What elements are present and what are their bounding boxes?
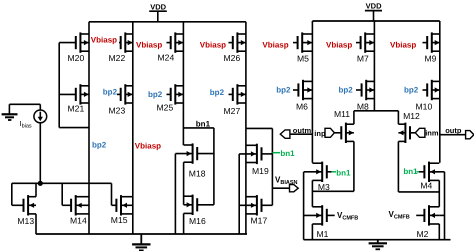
wire VDD rail (right block) <box>312 20 439 22</box>
wire Ibias down to bias node <box>39 123 41 184</box>
svg-text:M25: M25 <box>157 103 174 113</box>
svg-text:VDD: VDD <box>150 2 166 11</box>
ground (left block bottom) <box>132 234 150 250</box>
wire bias node horizontal <box>12 182 112 184</box>
transistor M11 (input pair left) <box>334 109 354 143</box>
wire M20/M21 gate line with loop to M21 drain <box>59 43 89 128</box>
svg-text:bp2: bp2 <box>210 88 225 97</box>
wire M13 source down to ground rail <box>35 214 37 234</box>
svg-text:M13: M13 <box>17 216 34 226</box>
svg-text:bn1: bn1 <box>403 167 418 176</box>
ground (right block bottom) <box>369 240 387 250</box>
svg-text:M26: M26 <box>224 53 241 63</box>
transistor M24 <box>158 32 184 62</box>
wire M12 drain down and over to M4 source node <box>398 141 439 192</box>
svg-text:Vbiasp: Vbiasp <box>262 40 288 49</box>
wire M11 drain down and over to M3 source node <box>312 141 354 191</box>
svg-text:bp2: bp2 <box>339 86 354 95</box>
wire M3/M1 column x=312.4 (M3 body to M1, down to ground rail) <box>311 180 313 239</box>
svg-text:Vbiasp: Vbiasp <box>326 40 352 49</box>
wire M11 source up to tail <box>353 111 355 124</box>
svg-text:M24: M24 <box>158 53 175 63</box>
transistor M20 <box>59 32 89 63</box>
power symbol VDD (left) <box>149 2 167 22</box>
svg-text:inp: inp <box>314 129 326 138</box>
transistor M5 <box>293 32 312 63</box>
wire M20/M21 source-drain column (x=89) from VDD rail to ground rail <box>88 22 90 234</box>
transistor M13 (diode connected) <box>12 195 36 226</box>
svg-text:M14: M14 <box>70 216 87 226</box>
wire bn1 loop: top horizontal and gate-side vertical for M18/M16 gates <box>183 128 214 205</box>
transistor M22 <box>109 32 133 63</box>
transistor M15 <box>111 195 133 225</box>
svg-text:M15: M15 <box>111 215 128 225</box>
wire M17 gate loop up to VBIASN <box>271 188 273 205</box>
svg-text:bp2: bp2 <box>103 87 118 96</box>
wire tail horizontal (M8 drain to input pair sources) <box>354 110 399 112</box>
wire bias node to M14 gate (L) <box>61 183 63 205</box>
wire M19/M17 bulk line down to ground rail (x=239.2) <box>238 154 240 234</box>
svg-text:M18: M18 <box>189 168 206 178</box>
wire M24/M25 column (x=183.4) from VDD rail down to bn1 loop <box>182 22 184 145</box>
transistor M21 <box>59 84 89 113</box>
transistor M1 (mirrored) <box>304 205 335 239</box>
svg-text:M22: M22 <box>109 53 126 63</box>
svg-text:M3: M3 <box>318 182 330 192</box>
wire M2 bulk tie (arrow lead extension to bulk line) <box>439 214 444 216</box>
svg-text:M19: M19 <box>252 166 269 176</box>
transistor M8 <box>356 80 374 112</box>
power symbol VDD (right) <box>365 2 382 21</box>
transistor M19 (mirrored, diode to VBIASN) <box>239 144 272 176</box>
svg-text:M20: M20 <box>68 53 85 63</box>
net label bn1 (green, M4 gate) <box>403 167 419 176</box>
wire M7/M8 column x=374.4 from rail to tail <box>373 21 375 111</box>
transistor M3 (cascode, mirrored) <box>304 162 332 192</box>
svg-text:M11: M11 <box>334 109 350 119</box>
transistor M17 (mirrored) <box>239 195 272 225</box>
svg-text:bn1: bn1 <box>280 149 295 158</box>
svg-text:M12: M12 <box>403 111 420 121</box>
wire M4/M2 column x=439.3 <box>438 180 440 239</box>
wire M22/M23 column (x=132.8) VDD rail to ground rail, carries Vbiasp down to M15 <box>132 22 134 234</box>
wire ground rail (left block) <box>36 233 247 235</box>
svg-text:M5: M5 <box>297 53 309 63</box>
net label bn1 (green, at M19 gate) <box>272 149 295 158</box>
transistor M16 (mirrored) <box>184 195 214 226</box>
port outm: open arrow, label and wire <box>280 126 312 138</box>
svg-text:outm: outm <box>293 126 312 135</box>
port inp: label and open arrow into M11 gate <box>314 128 334 138</box>
svg-text:Vbiasp: Vbiasp <box>136 40 162 49</box>
transistor M14 <box>62 195 89 226</box>
svg-text:Vbiasp: Vbiasp <box>135 142 161 151</box>
svg-text:bp2: bp2 <box>276 86 291 95</box>
wire M9/M10 column x=439.8 from rail down to M4 drain <box>439 21 441 163</box>
transistor M12 (input pair right, mirrored) <box>398 111 420 143</box>
svg-text:bp2: bp2 <box>404 86 419 95</box>
wire M12 source up to tail <box>397 111 399 124</box>
wire M27 drain branch to M19 gate loop <box>246 128 273 188</box>
port outp: wire, label and open arrow <box>440 126 474 139</box>
wire ground to Ibias source <box>9 104 40 110</box>
svg-text:VDD: VDD <box>366 2 382 11</box>
svg-text:Vbiasp: Vbiasp <box>91 35 117 44</box>
node bias (junction dot) <box>38 181 43 186</box>
svg-text:bp2: bp2 <box>92 141 107 150</box>
svg-text:M16: M16 <box>189 216 206 226</box>
svg-text:M8: M8 <box>357 101 369 111</box>
svg-text:Vbiasp: Vbiasp <box>390 40 416 49</box>
wire M3/M1 bulk line down to ground rail (x=303.6) <box>303 172 305 240</box>
svg-text:M17: M17 <box>251 216 268 226</box>
transistor M27 <box>224 84 246 116</box>
svg-text:M1: M1 <box>317 229 329 239</box>
transistor M4 (cascode) <box>419 162 439 191</box>
transistor M9 <box>423 32 440 63</box>
svg-text:M21: M21 <box>68 104 85 114</box>
wire M18 bulk line down to ground rail (x=175.4) <box>174 154 176 234</box>
wire ground rail (right block) <box>304 239 451 241</box>
ground (top left, Ibias return) <box>2 104 18 120</box>
transistor M26 <box>224 32 246 63</box>
transistor M23 <box>109 84 133 115</box>
wire M18 source down to M16 drain (x=183.6) <box>183 162 185 205</box>
transistor M2 <box>416 205 439 239</box>
svg-text:M7: M7 <box>357 54 369 64</box>
transistor M6 <box>293 80 312 112</box>
port VBIASN: wire, open arrow and label <box>272 175 298 192</box>
svg-text:M9: M9 <box>425 54 437 64</box>
wire M16 source down to ground rail <box>183 213 185 234</box>
svg-text:M23: M23 <box>109 105 126 115</box>
svg-text:Vbiasp: Vbiasp <box>200 40 226 49</box>
svg-text:bn1: bn1 <box>336 169 351 178</box>
svg-text:bp2: bp2 <box>148 90 163 99</box>
wire bias node to M15 gate (L) <box>111 183 113 205</box>
svg-text:M2: M2 <box>417 229 429 239</box>
current source Ibias (circle with down arrow) <box>20 110 47 129</box>
svg-text:M27: M27 <box>224 106 241 116</box>
transistor M7 <box>356 32 374 63</box>
wire M4 bulk line down to ground rail (x=448) <box>429 172 445 240</box>
wire M13 drain up to bias node <box>35 183 37 196</box>
transistor M18 (diode connected, mirrored) <box>175 143 214 178</box>
wire M5/M6 column x=312.4 from rail down to M3 drain <box>311 21 313 163</box>
svg-text:M6: M6 <box>296 101 308 111</box>
svg-text:M10: M10 <box>416 101 433 111</box>
svg-text:inm: inm <box>425 129 439 138</box>
transistor M25 <box>157 84 184 112</box>
svg-text:M4: M4 <box>420 181 432 191</box>
svg-text:outp: outp <box>445 126 462 135</box>
wire M26/M27 column (x=245.9) from VDD rail down to ground rail <box>245 22 247 234</box>
wire VDD rail (left block) <box>89 21 246 23</box>
wire bias node to M13 gate (left L) <box>11 183 13 205</box>
port inm: open arrow and label at M12 gate <box>415 128 439 137</box>
net label bn1 (green, M3 gate) <box>332 169 351 178</box>
transistor M10 <box>416 80 440 112</box>
